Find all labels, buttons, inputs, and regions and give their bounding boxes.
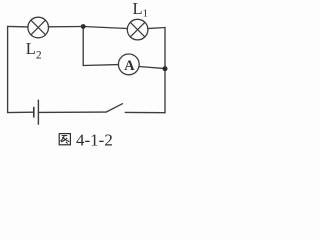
wire ammeter branch left — [83, 64, 118, 67]
svg-text:A: A — [124, 58, 135, 74]
wire ammeter to node B — [139, 67, 165, 69]
switch S right contact wire — [125, 111, 165, 113]
switch S blade — [106, 104, 123, 112]
wire right vertical — [164, 28, 166, 113]
lamp L1 — [127, 19, 148, 40]
wire lamp L2 to node A — [48, 26, 83, 28]
svg-text:4-1-2: 4-1-2 — [76, 131, 113, 150]
ammeter U1 — [118, 54, 139, 75]
wire bottom left — [8, 111, 33, 113]
wire left vertical — [7, 26, 9, 112]
wire top-left to lamp L2 — [8, 25, 28, 28]
node B junction dot — [163, 66, 168, 71]
svg-text:L1: L1 — [133, 0, 149, 20]
caption character 图 — [59, 134, 70, 145]
svg-text:L2: L2 — [26, 39, 42, 61]
lamp L2 — [28, 17, 49, 38]
wire node A down to ammeter branch — [82, 27, 84, 66]
battery GB — [34, 100, 39, 124]
wire battery to switch — [38, 111, 106, 113]
wire lamp L1 to right top corner — [148, 28, 165, 29]
wire node A to lamp L1 — [83, 27, 127, 29]
node A junction dot — [81, 24, 86, 29]
